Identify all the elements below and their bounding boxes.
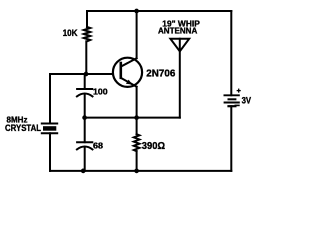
junction dot emitter node	[134, 115, 139, 120]
crystal Y1 body rectangle	[43, 126, 56, 131]
capacitor C1 100 straight plate	[77, 88, 92, 90]
wire 100pF lower lead to junction	[84, 95, 86, 118]
wire 68pF lower lead	[84, 147, 86, 171]
battery B1 plate long	[225, 102, 239, 104]
wire 390 upper lead	[136, 118, 138, 135]
transistor Q1 emitter arrowhead	[126, 80, 133, 85]
battery minus sign	[235, 104, 239, 106]
svg-text:10K: 10K	[63, 28, 78, 39]
wire base rail (crystal corner to transistor base)	[50, 74, 113, 123]
wire top rail (V+ from 10K top to battery +)	[87, 10, 231, 12]
junction dot 390 at ground rail	[134, 169, 139, 174]
antenna symbol triangle	[170, 39, 189, 52]
battery B1 plate short bottom	[229, 105, 236, 107]
junction dot caps mid node	[82, 115, 87, 120]
battery B1 plate long top	[224, 94, 239, 96]
capacitor C1 100 curved plate	[77, 94, 93, 97]
wire 68pF upper lead	[84, 118, 86, 143]
wire emitter down to junction	[136, 87, 138, 118]
junction dot collector at top rail	[134, 9, 139, 14]
svg-text:100: 100	[93, 87, 108, 97]
transistor Q1 base bar	[120, 63, 123, 78]
capacitor C2 68 curved plate	[77, 147, 93, 150]
svg-text:2N706: 2N706	[146, 69, 175, 80]
wire battery top lead	[230, 11, 232, 95]
transistor Q1 collector diagonal	[122, 58, 137, 66]
svg-text:3V: 3V	[242, 95, 252, 106]
crystal Y1 bottom plate	[42, 132, 57, 134]
battery B1 plate short	[229, 98, 236, 100]
wire collector to top rail	[136, 11, 138, 58]
svg-text:ANTENNA: ANTENNA	[158, 26, 197, 36]
svg-text:CRYSTAL: CRYSTAL	[5, 123, 41, 134]
transistor Q1 circle	[113, 58, 142, 87]
wire 10K lower lead to base node	[85, 41, 87, 74]
wire antenna feed line	[179, 39, 181, 118]
wire crystal lower lead	[49, 133, 51, 171]
resistor 390 ohm	[134, 134, 140, 151]
battery plus sign	[237, 89, 240, 92]
junction dot 68 at ground rail	[81, 169, 86, 174]
resistor 10K	[84, 27, 90, 41]
transistor Q1 emitter diagonal	[122, 78, 137, 87]
svg-text:390Ω: 390Ω	[142, 140, 165, 152]
crystal Y1 top plate	[42, 123, 57, 125]
capacitor C2 68 straight plate	[77, 141, 92, 143]
wire 390 lower lead	[136, 151, 138, 171]
wire bottom ground rail	[50, 170, 231, 172]
wire battery bottom lead	[230, 106, 232, 171]
junction dot base node	[84, 72, 89, 77]
wire 10K upper lead	[86, 11, 88, 27]
wire emitter rail (junction to antenna corner)	[84, 117, 179, 119]
wire 100pF upper lead	[84, 74, 86, 89]
svg-text:68: 68	[93, 142, 104, 151]
